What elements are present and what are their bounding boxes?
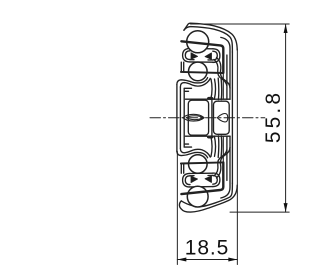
svg-text:18.5: 18.5: [185, 236, 229, 259]
svg-text:55.8: 55.8: [262, 90, 285, 143]
